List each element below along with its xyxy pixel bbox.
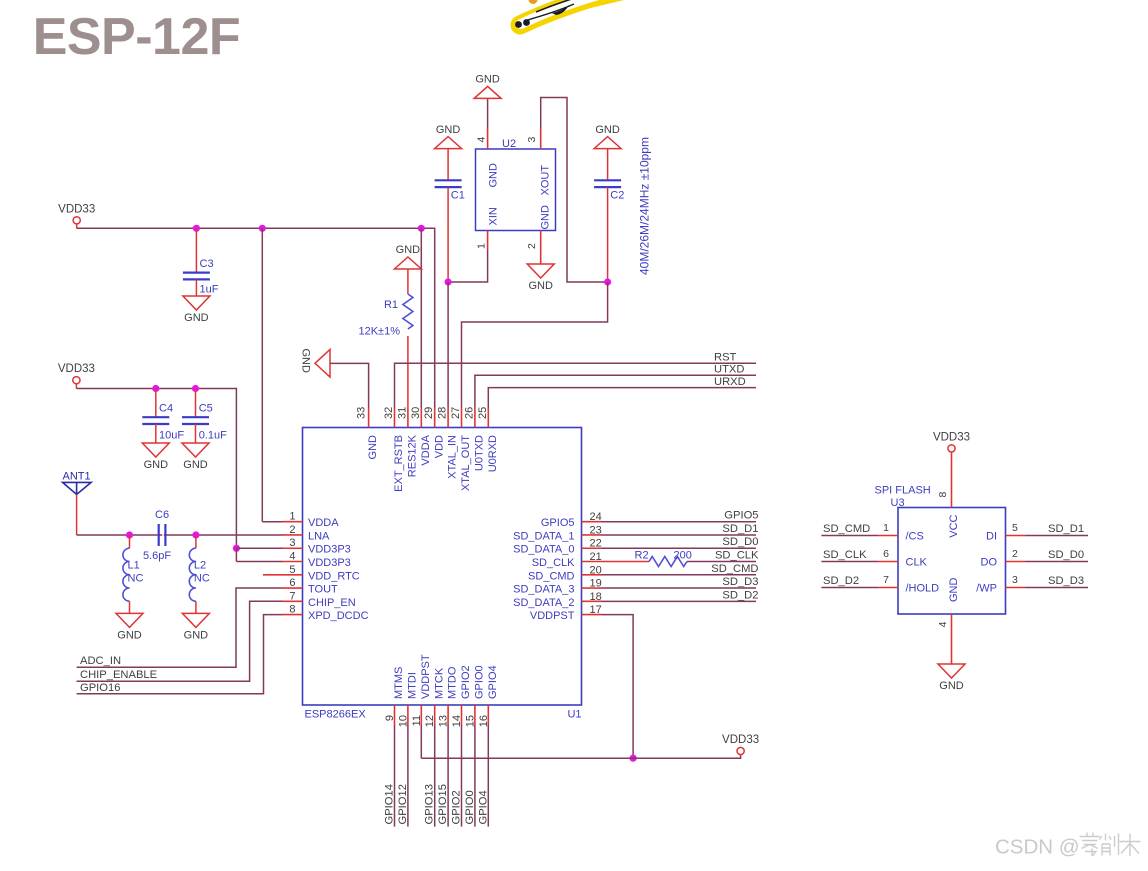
svg-text:R2: R2	[635, 550, 649, 562]
power port VDD33 (bottom)	[722, 734, 759, 755]
svg-text:ESP8266EX: ESP8266EX	[305, 709, 367, 721]
pin U1.9 MTMS	[384, 667, 405, 725]
wire/net GPIO0 (pin 15)	[464, 725, 476, 827]
svg-text:C5: C5	[199, 403, 213, 415]
svg-text:5: 5	[289, 564, 295, 576]
ground below L1	[116, 613, 143, 641]
svg-text:12K±1%: 12K±1%	[358, 326, 400, 338]
svg-text:GND: GND	[367, 435, 379, 460]
svg-text:NC: NC	[128, 573, 144, 585]
svg-text:VDD33: VDD33	[58, 203, 95, 215]
wire L2 bottom stub	[195, 601, 197, 613]
svg-text:2: 2	[289, 524, 295, 536]
wire U2.3 XOUT loop	[541, 98, 608, 283]
svg-text:URXD: URXD	[714, 376, 746, 388]
svg-text:1: 1	[289, 511, 295, 523]
ground above R1	[394, 244, 421, 269]
svg-text:GND: GND	[595, 124, 620, 136]
pin U1.1 VDDA	[283, 511, 340, 530]
pin U1.22 SD_DATA_0	[513, 538, 602, 556]
pin U1.23 SD_DATA_1	[513, 524, 602, 542]
svg-text:SD_D1: SD_D1	[722, 523, 758, 535]
svg-text:L1: L1	[128, 560, 140, 572]
wire pin1 horizontal	[262, 521, 282, 523]
svg-text:GND: GND	[540, 205, 552, 230]
svg-text:GPIO4: GPIO4	[487, 665, 499, 699]
pin U1.12 MTCK	[424, 667, 445, 727]
svg-text:25: 25	[477, 407, 489, 419]
pin U2.3 stub	[540, 129, 542, 149]
wire VDD33 rail2 down to pin3	[76, 389, 236, 549]
svg-text:VDDPST: VDDPST	[420, 654, 432, 699]
pin U1.7 CHIP_EN	[283, 590, 356, 609]
pin U2.1 stub	[487, 231, 489, 251]
net label ADC_IN	[80, 655, 121, 667]
pin U1.16 GPIO4	[478, 665, 499, 727]
pin U1.18 SD_DATA_2	[513, 591, 602, 609]
svg-text:27: 27	[450, 407, 462, 419]
pin U1.25 U0RXD	[477, 407, 499, 473]
net label SD_CMD	[711, 563, 758, 575]
svg-text:GND: GND	[939, 680, 964, 692]
svg-text:SD_D3: SD_D3	[722, 576, 758, 588]
pin U1.28 XTAL_IN	[437, 407, 459, 479]
svg-text:40M/26M/24MHz ±10ppm: 40M/26M/24MHz ±10ppm	[638, 137, 652, 275]
pin U1.26 U0TXD	[463, 407, 485, 471]
svg-text:3: 3	[1012, 574, 1018, 586]
wire VDD33 stub 2	[75, 384, 77, 389]
svg-text:VDD33: VDD33	[722, 734, 759, 746]
svg-text:1uF: 1uF	[200, 284, 219, 296]
svg-text:XTAL_OUT: XTAL_OUT	[460, 435, 472, 491]
net label RST	[714, 352, 737, 364]
ground left of pin 33	[299, 349, 330, 378]
wire SD_D3	[602, 587, 757, 589]
svg-text:3: 3	[526, 137, 538, 143]
svg-text:VDD33: VDD33	[933, 431, 970, 443]
ground below U2 pin 2	[527, 264, 554, 292]
node junction VDD33/pin30	[418, 225, 425, 232]
wire L1 bottom stub	[129, 601, 131, 613]
svg-text:VDD3P3: VDD3P3	[308, 557, 351, 569]
svg-text:GPIO0: GPIO0	[464, 790, 476, 824]
svg-text:CSDN @: CSDN @	[995, 836, 1080, 859]
antenna ANT1	[63, 471, 92, 495]
pin U1.14 GPIO2	[451, 665, 472, 727]
pin U1.31 RES12K	[396, 407, 418, 477]
wire XOUT to pin 27	[462, 282, 608, 408]
svg-text:SD_CMD: SD_CMD	[711, 563, 758, 575]
wire/net GPIO14 (pin 9)	[384, 725, 396, 827]
svg-text:VDD: VDD	[433, 435, 445, 458]
svg-text:ESP-12F: ESP-12F	[33, 8, 240, 66]
svg-text:3: 3	[289, 537, 295, 549]
svg-text:L2: L2	[194, 560, 206, 572]
svg-text:GPIO13: GPIO13	[424, 784, 436, 824]
svg-text:SD_CLK: SD_CLK	[823, 549, 867, 561]
svg-text:GPIO2: GPIO2	[451, 790, 463, 824]
svg-text:28: 28	[437, 407, 449, 419]
svg-text:LNA: LNA	[308, 530, 330, 542]
pin U1.21 SD_CLK	[532, 551, 602, 569]
svg-text:SD_DATA_2: SD_DATA_2	[513, 597, 574, 609]
crystal U2	[476, 137, 556, 250]
inductor L2	[189, 548, 210, 601]
pin U3.2 DO (SD_D0)	[981, 548, 1089, 569]
ground below L2	[182, 613, 209, 641]
pin U1.8 XPD_DCDC	[283, 604, 369, 623]
wire VDD33 to pin 1 VDDA	[261, 228, 263, 521]
wire U2.4 to ground	[487, 98, 489, 129]
svg-text:GND: GND	[184, 629, 209, 641]
svg-text:C1: C1	[451, 190, 465, 202]
pin U1.27 XTAL_OUT	[450, 407, 472, 491]
svg-text:19: 19	[590, 578, 602, 590]
capacitor C1	[435, 149, 465, 282]
capacitor C6	[143, 509, 171, 562]
ground below C5	[182, 443, 209, 471]
wire URXD to pin 25	[488, 388, 756, 408]
capacitor C5	[182, 389, 227, 444]
wire to pin 4	[236, 561, 282, 563]
power port VDD33 (U3)	[933, 431, 970, 452]
node junction L1	[126, 531, 133, 538]
svg-text:0.1uF: 0.1uF	[199, 430, 227, 442]
svg-text:GPIO16: GPIO16	[80, 682, 120, 694]
svg-text:SD_DATA_3: SD_DATA_3	[513, 584, 574, 596]
svg-text:U2: U2	[502, 138, 516, 150]
pin U3.5 DI (SD_D1)	[986, 522, 1088, 543]
svg-text:R1: R1	[384, 299, 398, 311]
svg-text:ANT1: ANT1	[63, 471, 91, 483]
capacitor C3	[183, 228, 219, 296]
svg-text:RES12K: RES12K	[407, 434, 419, 477]
net label SD_CLK	[715, 550, 759, 562]
pin U2.4 stub	[487, 129, 489, 149]
svg-text:VDD_RTC: VDD_RTC	[308, 570, 360, 582]
net label SD_D2	[722, 589, 758, 601]
pin U1.5 VDD_RTC	[263, 564, 360, 583]
svg-text:U0RXD: U0RXD	[487, 435, 499, 472]
svg-text:5.6pF: 5.6pF	[143, 550, 171, 562]
resistor R1	[358, 269, 412, 408]
pin U3.8 VCC	[937, 452, 960, 538]
wire/net GPIO13 (pin 12)	[424, 725, 436, 827]
svg-text:SD_CMD: SD_CMD	[823, 523, 870, 535]
svg-text:SD_DATA_1: SD_DATA_1	[513, 530, 574, 542]
svg-text:30: 30	[410, 407, 422, 419]
svg-text:CLK: CLK	[906, 557, 928, 569]
svg-text:2: 2	[1012, 548, 1018, 560]
net label CHIP_ENABLE	[80, 669, 157, 681]
svg-text:9: 9	[384, 715, 396, 721]
svg-text:GPIO12: GPIO12	[397, 784, 409, 824]
svg-text:DO: DO	[981, 557, 998, 569]
svg-text:RST: RST	[714, 352, 737, 364]
svg-text:C4: C4	[159, 403, 173, 415]
pin U1.11 VDDPST	[411, 654, 432, 726]
node junction C4	[152, 385, 159, 392]
wire/net GPIO2 (pin 14)	[451, 725, 463, 827]
wire LNA net	[77, 534, 283, 536]
svg-text:GND: GND	[396, 244, 421, 256]
wire GPIO5	[602, 521, 757, 523]
pin U1.19 SD_DATA_3	[513, 578, 602, 596]
svg-text:GND: GND	[183, 459, 208, 471]
svg-text:23: 23	[590, 524, 602, 536]
wire SD_CLK left of R2	[602, 561, 650, 563]
svg-text:XOUT: XOUT	[540, 165, 552, 196]
svg-text:18: 18	[590, 591, 602, 603]
svg-text:8: 8	[937, 492, 949, 498]
IC U3 SPI FLASH body	[875, 485, 1006, 615]
wire SD_D0	[602, 547, 757, 549]
wire VDD33 rail to pin 29	[77, 228, 435, 407]
wire/net GPIO12 (pin 10)	[397, 725, 409, 827]
pin U1.29 VDD	[423, 407, 445, 458]
wire/net GPIO15 (pin 13)	[437, 725, 449, 827]
power port VDD33 (left mid)	[58, 363, 95, 384]
svg-text:/HOLD: /HOLD	[906, 583, 940, 595]
svg-text:11: 11	[411, 715, 423, 726]
inductor L1	[123, 548, 144, 601]
svg-text:TOUT: TOUT	[308, 584, 338, 596]
svg-text:31: 31	[396, 407, 408, 419]
svg-text:4: 4	[937, 621, 949, 627]
svg-text:C6: C6	[155, 509, 169, 521]
title ESP-12F	[33, 8, 240, 66]
svg-text:GPIO15: GPIO15	[437, 784, 449, 824]
node junction VDDPST/VDD33	[630, 755, 637, 762]
svg-text:U1: U1	[567, 709, 581, 721]
svg-text:GPIO5: GPIO5	[724, 510, 758, 522]
IC U1 ESP8266EX body	[303, 428, 582, 721]
svg-text:1: 1	[883, 522, 889, 534]
pin U1.6 TOUT	[283, 577, 339, 596]
pin U3.3 /WP (SD_D3)	[976, 574, 1088, 595]
logo mascot (cut off at top)	[515, 0, 630, 28]
pin U3.4 GND	[937, 578, 960, 665]
svg-text:XPD_DCDC: XPD_DCDC	[308, 610, 369, 622]
svg-text:10uF: 10uF	[159, 430, 184, 442]
node junction pin3/pin4	[233, 545, 240, 552]
svg-text:ADC_IN: ADC_IN	[80, 655, 121, 667]
wire SD_D2	[602, 600, 757, 602]
svg-text:GPIO0: GPIO0	[474, 665, 486, 699]
net label URXD	[714, 376, 746, 388]
wire RST to pin 32	[395, 363, 757, 407]
svg-text:8: 8	[289, 604, 295, 616]
wire ground to pin 33	[330, 363, 369, 407]
svg-text:GPIO2: GPIO2	[460, 665, 472, 699]
svg-text:6: 6	[883, 548, 889, 560]
wire to pin 3	[236, 547, 282, 549]
capacitor C4	[142, 389, 184, 444]
pin U2.2 stub	[540, 231, 542, 265]
wire SD_CMD	[602, 574, 757, 576]
svg-text:/CS: /CS	[906, 531, 924, 543]
svg-text:SD_D1: SD_D1	[1048, 523, 1084, 535]
svg-text:GND: GND	[436, 124, 461, 136]
pin U1.33 GND	[355, 407, 379, 460]
pin U1.13 MTDO	[438, 666, 459, 727]
node junction VDD33/C3	[193, 225, 200, 232]
pin U1.24 GPIO5	[541, 511, 602, 529]
capacitor C2	[594, 149, 624, 282]
svg-text:GND: GND	[117, 629, 142, 641]
wire antenna down	[76, 495, 78, 536]
net label UTXD	[714, 364, 744, 376]
ground above C1	[435, 124, 462, 149]
svg-text:1: 1	[476, 243, 488, 249]
wire ADC_IN to pin 6	[77, 588, 283, 667]
pin U1.20 SD_CMD	[528, 564, 602, 582]
svg-text:C3: C3	[200, 258, 214, 270]
power port VDD33 (top left)	[58, 203, 95, 224]
svg-text:GPIO4: GPIO4	[477, 790, 489, 824]
svg-text:SD_D2: SD_D2	[823, 575, 859, 587]
wire VDD33 to pin 30 VDDA	[420, 228, 422, 407]
svg-text:U0TXD: U0TXD	[474, 435, 486, 471]
svg-text:20: 20	[590, 564, 602, 576]
wire U2.1 XIN	[448, 251, 488, 283]
svg-text:VDD33: VDD33	[58, 363, 95, 375]
svg-text:29: 29	[423, 407, 435, 419]
svg-text:VCC: VCC	[948, 514, 960, 537]
net label GPIO5	[724, 510, 758, 522]
svg-text:VDDPST: VDDPST	[530, 610, 575, 622]
svg-text:GND: GND	[528, 280, 553, 292]
ground below U3	[938, 664, 965, 692]
crystal frequency note	[638, 137, 652, 275]
svg-text:U3: U3	[891, 497, 905, 509]
wire junction to pin4 corner	[235, 548, 237, 561]
pin U3.6 CLK (SD_CLK)	[821, 548, 927, 569]
node junction L2	[192, 531, 199, 538]
pin U1.15 GPIO0	[464, 665, 485, 727]
net label GPIO16	[80, 682, 120, 694]
pin U3.1 /CS (SD_CMD)	[821, 522, 923, 543]
svg-text:22: 22	[590, 538, 602, 550]
svg-text:C2: C2	[610, 190, 624, 202]
svg-text:VDDA: VDDA	[420, 434, 432, 465]
wire VDD33 bottom rail	[421, 755, 740, 759]
svg-text:SD_CLK: SD_CLK	[532, 557, 575, 569]
svg-text:SD_D0: SD_D0	[1048, 549, 1084, 561]
resistor R2 200	[635, 550, 692, 567]
wire CHIP_ENABLE to pin 7	[77, 601, 283, 681]
svg-text:200: 200	[674, 550, 692, 562]
wire L1 top stub	[129, 535, 131, 548]
svg-text:CHIP_ENABLE: CHIP_ENABLE	[80, 669, 157, 681]
watermark CSDN	[995, 833, 1141, 859]
svg-text:26: 26	[463, 407, 475, 419]
svg-text:GND: GND	[948, 578, 960, 603]
net label SD_D0	[722, 536, 758, 548]
wire SD_D1	[602, 534, 757, 536]
svg-text:GND: GND	[144, 459, 169, 471]
svg-text:GPIO14: GPIO14	[384, 784, 396, 824]
svg-text:4: 4	[476, 137, 488, 143]
svg-text:GND: GND	[184, 312, 209, 324]
svg-text:SD_CMD: SD_CMD	[528, 570, 575, 582]
pin U1.3 VDD3P3	[283, 537, 351, 556]
wire/net GPIO4 (pin 16)	[477, 725, 489, 827]
pin U1.17 VDDPST	[530, 604, 602, 622]
svg-text:SD_D2: SD_D2	[722, 589, 758, 601]
pin U1.10 MTDI	[397, 672, 418, 727]
svg-text:GND: GND	[488, 163, 500, 188]
wire XIN to pin 28	[447, 282, 449, 408]
svg-text:VDDA: VDDA	[308, 517, 339, 529]
svg-text:4: 4	[289, 551, 295, 563]
svg-text:GPIO5: GPIO5	[541, 517, 575, 529]
pin U1.2 LNA	[283, 524, 331, 543]
ground above C2	[594, 124, 621, 149]
node junction XOUT/C2	[604, 278, 611, 285]
wire VDD33 stub	[76, 224, 78, 228]
svg-text:SD_D3: SD_D3	[1048, 575, 1084, 587]
svg-text:32: 32	[383, 407, 395, 419]
svg-text:2: 2	[526, 243, 538, 249]
svg-text:GND: GND	[299, 349, 311, 374]
svg-text:MTDI: MTDI	[407, 672, 419, 699]
svg-text:7: 7	[289, 590, 295, 602]
svg-text:5: 5	[1012, 522, 1018, 534]
node junction VDD33/pin1	[259, 225, 266, 232]
svg-text:/WP: /WP	[976, 583, 997, 595]
svg-text:MTDO: MTDO	[447, 666, 459, 699]
svg-text:33: 33	[355, 407, 367, 419]
pin U1.4 VDD3P3	[283, 551, 351, 570]
pin U1.30 VDDA	[410, 407, 432, 466]
ground below C3	[183, 296, 210, 324]
node junction XIN/C1	[445, 278, 452, 285]
svg-text:GND: GND	[475, 73, 500, 85]
ground above U2 pin 4	[474, 73, 501, 98]
pin U3.7 /HOLD (SD_D2)	[821, 574, 939, 595]
svg-text:XTAL_IN: XTAL_IN	[447, 435, 459, 479]
svg-text:17: 17	[590, 604, 602, 616]
wire pin 11 down	[420, 725, 422, 758]
svg-text:NC: NC	[194, 573, 210, 585]
svg-text:CHIP_EN: CHIP_EN	[308, 597, 356, 609]
svg-text:MTMS: MTMS	[393, 667, 405, 699]
svg-text:MTCK: MTCK	[433, 667, 445, 699]
wire GPIO16 to pin 8	[77, 615, 283, 694]
wire L2 top stub	[195, 535, 197, 548]
wire UTXD to pin 26	[475, 375, 756, 407]
svg-text:SD_D0: SD_D0	[722, 536, 758, 548]
net label SD_D1	[722, 523, 758, 535]
svg-text:EXT_RSTB: EXT_RSTB	[393, 435, 405, 492]
svg-text:VDD3P3: VDD3P3	[308, 544, 351, 556]
node junction C5	[192, 385, 199, 392]
svg-text:24: 24	[590, 511, 602, 523]
svg-text:SD_DATA_0: SD_DATA_0	[513, 544, 574, 556]
svg-text:7: 7	[883, 574, 889, 586]
svg-text:DI: DI	[986, 531, 997, 543]
svg-text:XIN: XIN	[488, 207, 500, 225]
wire VDDPST down	[602, 615, 634, 759]
svg-text:SPI FLASH: SPI FLASH	[875, 485, 931, 497]
ground below C4	[142, 443, 169, 471]
net label SD_D3	[722, 576, 758, 588]
svg-text:6: 6	[289, 577, 295, 589]
wire SD_CLK right of R2	[687, 561, 756, 563]
pin U1.32 EXT_RSTB	[383, 407, 405, 492]
svg-text:SD_CLK: SD_CLK	[715, 550, 759, 562]
